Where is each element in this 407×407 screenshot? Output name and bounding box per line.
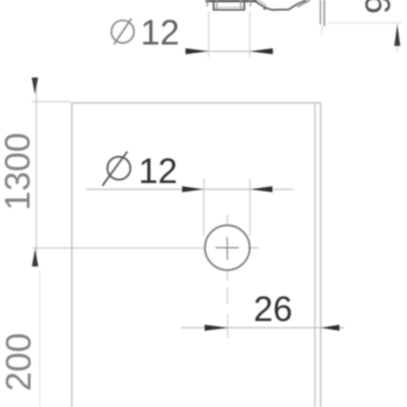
diameter 12 hole right extension line [249, 179, 251, 236]
dimension 1300 bottom arrow [32, 249, 38, 267]
svg-text:9: 9 [359, 0, 398, 14]
diameter symbol hole [102, 152, 130, 186]
dimension 26 right arrow [321, 325, 340, 331]
bolt tip lower edge line [215, 6, 244, 8]
hex nut outline [253, 0, 306, 10]
svg-text:12: 12 [141, 13, 180, 52]
hole crosshair vertical [226, 237, 228, 260]
diameter 12 top left extension line [208, 12, 210, 58]
diameter 12 hole right arrow [250, 186, 273, 192]
hole centerline vertical below dash 2 [226, 288, 228, 304]
dimension 1300 extension line [32, 101, 72, 103]
hole centerline horizontal [33, 247, 205, 249]
bolt tip outline [214, 0, 245, 10]
bolt body right edge [250, 0, 252, 7]
dimension 26 line [181, 327, 344, 329]
plate right outer edge [320, 103, 322, 407]
rod faint tail [321, 26, 324, 36]
hole crosshair horizontal [216, 247, 239, 249]
dimension 200 line [39, 270, 41, 407]
svg-text:1300: 1300 [0, 133, 38, 211]
rod right line [323, 0, 325, 26]
hole centerline vertical below dash 1 [226, 270, 228, 281]
dimension 9 line [396, 23, 398, 51]
diameter 12 top right extension line [249, 12, 251, 58]
dimension 9 arrow up [394, 24, 400, 46]
svg-text:200: 200 [0, 333, 38, 391]
diameter 12 hole dimension line [86, 188, 293, 190]
hex nut outer right facet [297, 0, 310, 7]
plate left edge [71, 103, 73, 407]
hole centerline horizontal right stub [248, 247, 258, 249]
clamp top cut line [206, 0, 258, 2]
diameter 12 top right arrow [250, 48, 273, 54]
svg-text:12: 12 [139, 152, 178, 191]
diameter 12 hole left extension line [203, 179, 205, 236]
diameter 12 top dimension line [184, 50, 275, 52]
dimension 1300 line [35, 78, 37, 266]
hex nut inner left facet [258, 0, 266, 6]
rod left line [319, 0, 321, 25]
bolt body left edge [206, 0, 208, 7]
plate right inner edge [314, 103, 316, 407]
bolt tip inner left line [216, 0, 218, 9]
hole centerline vertical below dash 3 [227, 315, 229, 339]
dimension 9 extension line [327, 22, 402, 24]
dimension 26 left arrow [205, 325, 229, 331]
svg-text:26: 26 [254, 290, 293, 329]
hole circle [205, 225, 250, 270]
plate top edge [72, 102, 321, 104]
diameter 12 hole left arrow [182, 186, 204, 192]
hex nut corner blob [263, 6, 267, 10]
dimension 1300 top arrow [32, 78, 38, 95]
diameter symbol top [111, 19, 134, 45]
diameter 12 top left arrow [186, 48, 209, 54]
bolt tip inner right line [240, 0, 242, 9]
hole centerline vertical top stub [226, 215, 228, 225]
